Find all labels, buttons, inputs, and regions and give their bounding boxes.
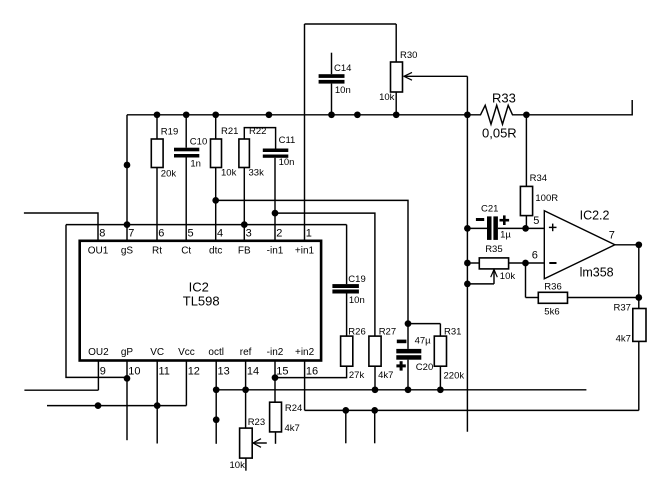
svg-text:R35: R35 (485, 244, 502, 255)
svg-text:4k7: 4k7 (285, 423, 300, 434)
svg-text:R21: R21 (221, 126, 238, 137)
svg-text:+in2: +in2 (295, 347, 315, 358)
svg-text:R30: R30 (400, 50, 417, 61)
svg-text:IC2.2: IC2.2 (580, 209, 610, 223)
svg-text:10k: 10k (379, 92, 395, 103)
svg-text:C11: C11 (279, 135, 296, 146)
svg-text:R22: R22 (249, 126, 266, 137)
svg-text:5: 5 (188, 228, 194, 240)
svg-text:14: 14 (247, 366, 259, 378)
svg-text:10n: 10n (349, 295, 365, 306)
svg-text:C10: C10 (190, 137, 207, 148)
svg-text:10: 10 (128, 366, 140, 378)
svg-text:FB: FB (238, 246, 251, 257)
svg-text:R33: R33 (492, 91, 516, 106)
svg-text:6: 6 (158, 228, 164, 240)
svg-text:VC: VC (150, 347, 164, 358)
svg-text:4k7: 4k7 (616, 333, 631, 344)
svg-text:47µ: 47µ (415, 335, 432, 346)
svg-text:dtc: dtc (209, 246, 222, 257)
svg-text:+in1: +in1 (295, 246, 315, 257)
svg-text:10k: 10k (230, 460, 246, 471)
svg-text:4k7: 4k7 (378, 370, 393, 381)
svg-text:Ct: Ct (181, 246, 191, 257)
svg-text:C14: C14 (334, 63, 351, 74)
svg-text:R24: R24 (285, 403, 302, 414)
svg-text:gS: gS (121, 246, 134, 257)
svg-text:R34: R34 (530, 173, 547, 184)
svg-text:Rt: Rt (152, 246, 162, 257)
svg-text:-in1: -in1 (267, 246, 284, 257)
svg-text:1: 1 (306, 228, 312, 240)
svg-text:5: 5 (533, 215, 539, 227)
svg-text:OU1: OU1 (88, 246, 109, 257)
svg-text:8: 8 (99, 228, 105, 240)
svg-text:20k: 20k (161, 169, 177, 180)
svg-text:OU2: OU2 (88, 347, 109, 358)
svg-text:3: 3 (246, 228, 252, 240)
svg-text:15: 15 (276, 366, 288, 378)
svg-text:10n: 10n (279, 157, 295, 168)
svg-text:C19: C19 (348, 274, 365, 285)
svg-text:1µ: 1µ (500, 229, 511, 240)
svg-text:2: 2 (276, 228, 282, 240)
svg-text:gP: gP (121, 347, 134, 358)
svg-text:7: 7 (128, 228, 134, 240)
svg-text:R31: R31 (444, 327, 461, 338)
svg-text:TL598: TL598 (183, 294, 220, 309)
svg-text:R23: R23 (248, 417, 265, 428)
svg-text:27k: 27k (349, 370, 365, 381)
svg-text:4: 4 (217, 228, 223, 240)
svg-text:R37: R37 (614, 303, 631, 314)
svg-text:lm358: lm358 (580, 265, 614, 279)
svg-text:12: 12 (188, 366, 200, 378)
svg-text:C21: C21 (481, 204, 498, 215)
svg-text:16: 16 (306, 366, 318, 378)
svg-text:10k: 10k (500, 271, 516, 282)
svg-text:5k6: 5k6 (544, 307, 559, 318)
svg-text:1n: 1n (190, 159, 201, 170)
svg-text:IC2: IC2 (189, 280, 209, 295)
svg-text:ref: ref (240, 347, 252, 358)
svg-text:13: 13 (218, 366, 230, 378)
svg-text:R19: R19 (161, 127, 178, 138)
svg-text:R27: R27 (379, 327, 396, 338)
svg-text:octl: octl (208, 347, 224, 358)
svg-text:-in2: -in2 (267, 347, 284, 358)
svg-text:11: 11 (159, 366, 170, 378)
svg-text:220k: 220k (444, 370, 465, 381)
svg-text:7: 7 (609, 229, 615, 241)
svg-text:6: 6 (532, 249, 538, 261)
svg-text:R36: R36 (544, 281, 561, 292)
svg-text:Vcc: Vcc (178, 347, 195, 358)
svg-text:R26: R26 (348, 327, 365, 338)
svg-text:0,05R: 0,05R (482, 125, 517, 140)
svg-text:10k: 10k (221, 168, 237, 179)
svg-text:33k: 33k (249, 168, 265, 179)
svg-text:C20: C20 (416, 362, 433, 373)
svg-text:100R: 100R (535, 193, 558, 204)
svg-text:9: 9 (100, 366, 106, 378)
svg-text:10n: 10n (335, 85, 351, 96)
